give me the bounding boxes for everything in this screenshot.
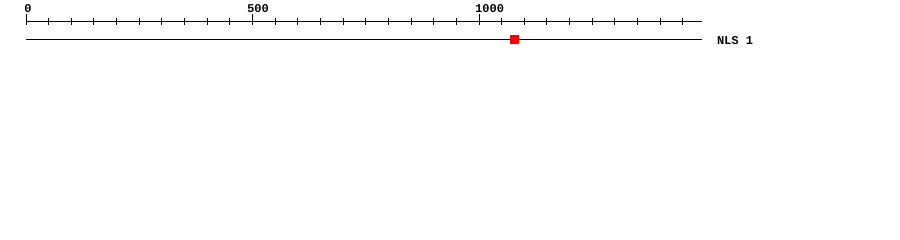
sequence feature line [26,39,702,40]
svg-text:0: 0 [24,2,31,16]
ruler axis line [26,21,702,22]
svg-text:500: 500 [247,2,269,16]
minor ticks (every 50 units) [48,18,683,25]
feature marker NLS (red square) [510,35,519,44]
major tick 0 [26,14,27,25]
major tick 500 [252,14,253,25]
major tick 1000 [479,14,480,25]
svg-text:1000: 1000 [475,2,504,16]
svg-text:NLS 1: NLS 1 [717,34,753,48]
